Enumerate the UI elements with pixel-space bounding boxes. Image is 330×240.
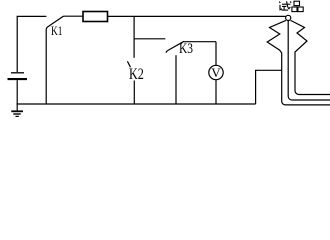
svg-text:V: V xyxy=(211,65,221,80)
svg-text:K1: K1 xyxy=(51,23,63,38)
svg-text:K3: K3 xyxy=(179,41,193,57)
svg-text:K2: K2 xyxy=(129,66,144,83)
